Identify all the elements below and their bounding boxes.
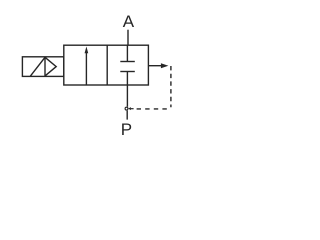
flow arrow head: [85, 47, 89, 54]
blocked port T top bar: [120, 61, 135, 63]
svg-text:P: P: [121, 120, 132, 139]
blocked port T bottom bar: [120, 71, 135, 73]
pilot arrowhead at P node: [128, 107, 131, 110]
solenoid triangle: [45, 57, 56, 76]
valve body center divider: [106, 45, 108, 85]
pilot line horizontal dashed: [133, 108, 167, 110]
outlet arrowhead: [161, 63, 169, 68]
node circle at P: [125, 107, 128, 110]
solenoid diagonal stroke: [30, 57, 45, 76]
solenoid divider line: [44, 57, 46, 77]
pilot line vertical dashed: [170, 66, 172, 107]
P stem lower: [126, 111, 128, 120]
outlet line right: [148, 65, 161, 67]
valve body outline: [64, 45, 149, 85]
flow arrow stem (open position): [85, 53, 87, 85]
svg-text:A: A: [123, 12, 135, 31]
blocked port T bottom stem: [126, 72, 128, 85]
blocked port T top stem: [126, 45, 128, 61]
pilot arrow tail dash: [131, 108, 134, 110]
P stem upper: [126, 85, 128, 107]
solenoid coil box: [22, 57, 63, 77]
port A lead wire: [127, 30, 129, 46]
